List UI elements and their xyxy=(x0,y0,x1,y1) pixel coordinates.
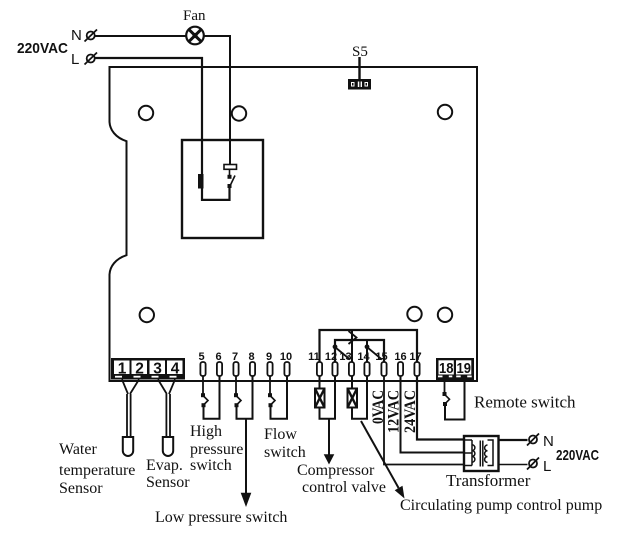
svg-text:15: 15 xyxy=(375,351,387,363)
svg-text:14: 14 xyxy=(357,351,370,363)
mounting hole top-right xyxy=(438,105,452,119)
wire line B (12 to 15 jumper) xyxy=(335,340,384,362)
valve Y1 body xyxy=(315,389,325,408)
sensor lead left xyxy=(165,394,167,437)
svg-text:4: 4 xyxy=(171,361,180,378)
svg-text:13: 13 xyxy=(339,351,351,363)
wire L down into relay box xyxy=(201,57,203,201)
wire terminal 4 xyxy=(169,380,175,395)
switch blade xyxy=(271,397,275,405)
wire terminal 13 down xyxy=(351,376,353,389)
junction lower contact xyxy=(443,402,447,406)
svg-text:Fan: Fan xyxy=(183,8,206,24)
wire terminal 1 xyxy=(122,380,128,395)
wire to terminal 12 xyxy=(320,376,336,419)
svg-text:220VAC: 220VAC xyxy=(17,40,68,57)
sensor lead left xyxy=(126,394,128,437)
valve Y1 compressor control valve (terminals 11-12) xyxy=(315,376,335,419)
terminal block 1-4 xyxy=(111,358,185,380)
svg-text:1: 1 xyxy=(118,361,127,378)
wire terminal 2 xyxy=(130,380,139,395)
transformer core xyxy=(479,441,481,467)
terminal N right (circle with slash) xyxy=(527,434,539,446)
wire terminal 9 down xyxy=(269,376,271,394)
svg-text:temperature: temperature xyxy=(59,462,135,479)
junction dot 14 xyxy=(365,344,370,349)
svg-text:Circulating pump control pump: Circulating pump control pump xyxy=(400,497,602,514)
wire terminal 5 down xyxy=(202,376,204,394)
arrow to low pressure switch label xyxy=(245,419,247,494)
svg-text:17: 17 xyxy=(409,351,421,363)
wire 0VAC (terminal 15 to transformer) xyxy=(384,376,464,465)
terminal lugs 5-17 xyxy=(200,362,419,376)
relay switch lower dot xyxy=(228,184,232,188)
terminal numbers 5-10 xyxy=(198,351,292,363)
junction upper contact xyxy=(268,393,272,397)
svg-text:12VAC: 12VAC xyxy=(386,390,403,433)
wire to terminal 8 xyxy=(237,376,253,419)
wire to terminal 6 xyxy=(204,376,220,419)
transformer T1 case xyxy=(464,436,499,471)
svg-text:11: 11 xyxy=(308,351,320,363)
wires terminals 1-2 to water temperature sensor xyxy=(122,380,139,438)
wire 12VAC (terminal 16 to transformer) xyxy=(401,376,465,453)
wire to terminal 19 xyxy=(445,380,465,420)
relay contact bar xyxy=(198,174,204,189)
switch S2 low pressure (terminals 7-8) xyxy=(234,376,253,419)
relay box K1 xyxy=(182,140,263,238)
transformer primary winding xyxy=(488,440,494,466)
svg-text:Water: Water xyxy=(59,441,97,458)
wire dot to cap xyxy=(229,169,231,175)
wire terminal 11 down xyxy=(319,376,321,389)
switch blade xyxy=(204,397,208,405)
svg-text:Sensor: Sensor xyxy=(59,480,103,497)
svg-text:N: N xyxy=(71,27,82,44)
junction upper contact xyxy=(201,393,205,397)
svg-text:Remote switch: Remote switch xyxy=(474,393,576,412)
wire L from terminal to corner xyxy=(95,57,203,59)
terminal L (circle with slash) xyxy=(85,53,98,65)
transformer secondary stubs xyxy=(464,439,472,441)
wire 24VAC (terminal 17 to transformer) xyxy=(417,376,464,440)
thermal cap xyxy=(224,165,237,170)
junction upper contact xyxy=(443,392,447,396)
transformer secondary winding xyxy=(471,440,473,466)
relay switch upper dot xyxy=(228,175,232,179)
svg-text:L: L xyxy=(543,458,551,475)
svg-text:control valve: control valve xyxy=(302,479,386,496)
terminal L right (circle with slash) xyxy=(527,458,539,470)
svg-text:18: 18 xyxy=(439,360,454,377)
mounting hole top-mid xyxy=(232,106,246,120)
svg-text:2: 2 xyxy=(135,361,144,378)
arrow to circulating pump label xyxy=(361,421,399,488)
junction lower contact xyxy=(235,403,239,407)
valve Y2 body xyxy=(348,389,358,408)
svg-text:Compressor: Compressor xyxy=(297,462,375,479)
svg-text:Evap.: Evap. xyxy=(146,457,183,474)
svg-text:pressure: pressure xyxy=(190,441,243,458)
wire N down to relay contact xyxy=(229,35,231,165)
wire terminal 18 down xyxy=(444,380,446,393)
wire terminal 7 down xyxy=(235,376,237,394)
svg-text:High: High xyxy=(190,423,222,440)
svg-text:L: L xyxy=(71,51,79,68)
svg-text:N: N xyxy=(543,433,554,450)
svg-text:Transformer: Transformer xyxy=(446,471,531,490)
wire N from fan to corner xyxy=(204,35,232,37)
switch blade xyxy=(446,395,450,403)
wire transformer to N terminal xyxy=(499,439,528,441)
wire terminal 3 xyxy=(158,380,167,395)
terminal numbers 11-17 xyxy=(308,351,421,363)
valve Y2 circulating pump valve (terminals 13-14) xyxy=(348,376,368,419)
switch S5 body xyxy=(348,79,371,90)
junction lower contact xyxy=(202,403,206,407)
wires terminals 3-4 to evaporator sensor xyxy=(158,380,175,438)
wire 14 up to line B xyxy=(366,340,368,362)
wire relay bottom xyxy=(202,188,230,200)
wire S5 stem xyxy=(358,57,360,80)
wire transformer to L terminal xyxy=(499,464,528,466)
svg-text:Sensor: Sensor xyxy=(146,474,190,491)
svg-text:24VAC: 24VAC xyxy=(402,390,419,433)
mounting hole bottom-right-2 xyxy=(438,308,452,322)
sensor lead right xyxy=(130,394,132,437)
switch S1 high pressure (terminals 5-6) xyxy=(201,376,220,419)
wire to terminal 10 xyxy=(271,376,288,419)
svg-text:220VAC: 220VAC xyxy=(556,447,599,464)
wire to terminal 14 xyxy=(352,376,367,419)
switch blade xyxy=(237,397,241,405)
wire line A (11 to 17 jumper) xyxy=(320,330,418,362)
switch blade 12-13 xyxy=(336,348,351,360)
terminal N (circle with slash) xyxy=(85,30,98,42)
wire tap to 13 xyxy=(351,330,353,362)
evap sensor bulb xyxy=(163,437,173,456)
water temperature sensor bulb xyxy=(123,437,133,456)
svg-text:switch: switch xyxy=(264,444,306,461)
wire N from terminal to fan xyxy=(95,35,187,37)
svg-text:19: 19 xyxy=(457,360,472,377)
arrow to compressor label xyxy=(328,419,330,455)
sensor lead right xyxy=(169,394,171,437)
svg-text:Low pressure switch: Low pressure switch xyxy=(155,509,287,526)
junction dot 12 xyxy=(333,344,338,349)
switch blade 14-15 xyxy=(368,348,383,360)
svg-text:Flow: Flow xyxy=(264,426,297,443)
junction lower contact xyxy=(269,403,273,407)
switch S3 flow (terminals 9-10) xyxy=(268,376,287,419)
mounting hole bottom-left xyxy=(140,308,154,322)
mounting hole bottom-right-1 xyxy=(407,307,421,321)
svg-text:3: 3 xyxy=(153,361,162,378)
junction upper contact xyxy=(234,393,238,397)
svg-text:switch: switch xyxy=(190,457,232,474)
relay switch blade xyxy=(230,176,235,187)
fan M1 xyxy=(186,27,204,45)
mounting hole top-left xyxy=(139,106,153,120)
switch S4 remote (terminals 18-19) xyxy=(443,380,465,420)
board outline xyxy=(110,67,478,381)
svg-text:0VAC: 0VAC xyxy=(370,390,387,424)
terminal block 18-19 xyxy=(436,358,474,380)
transformer T1 xyxy=(464,436,499,471)
arrowhead plug marker xyxy=(349,331,357,344)
